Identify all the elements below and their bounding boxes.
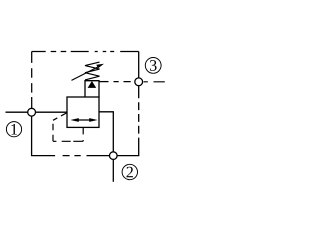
pilot relief stage box [85,81,99,97]
port label 1 [6,122,21,137]
wire: main valve right side to port 2 [99,112,113,152]
wire: dashed pilot line, diagonal from port1/valve junction [53,113,67,121]
wire: dashed pilot line, right vertical to main valve bottom [82,127,84,141]
port label 2 [122,164,137,179]
adjustable spring (zigzag) [85,62,100,80]
wire: bottom run to port 2 (part dashed) [31,155,109,157]
main valve envelope (square) [67,97,99,127]
wire: dashed pilot line, bottom horizontal [53,140,83,142]
wire: pilot box to port 3 (solid stub then dashed) [99,81,109,83]
wire: port 1 inlet line (left horizontal) [6,111,28,113]
node: port 2 junction circle [110,152,118,160]
wire: dashed stub right of port 3 [144,81,165,83]
wire: dashed vent line, left vertical from corner to port 1 [31,52,33,109]
main valve flow arrow (double-headed) [75,119,93,121]
wire: dashed drop from port 3 down to port 2 line [138,86,140,156]
spring adjustment arrow [72,66,100,80]
wire: port 1 down to bottom run corner [31,116,33,156]
wire: solid vent line, top-right corner down to port 3 [138,52,140,78]
node: port 1 junction circle [28,108,36,116]
node: port 3 junction circle [135,78,143,86]
port label 3 [145,58,161,74]
pilot poppet (filled triangle) [88,81,97,88]
wire: dashed pilot line, left vertical [52,120,54,141]
wire: port 2 stub downward [112,159,114,181]
wire: dashed vent line, top horizontal [32,51,139,53]
wire: port 1 to main valve left side [36,111,68,113]
wire: port 2 right to port 3 column corner [117,155,139,157]
